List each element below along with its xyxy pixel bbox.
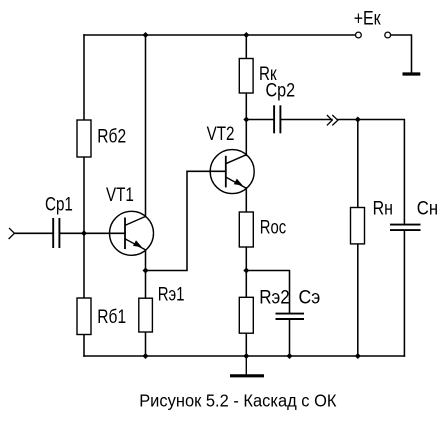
resistor Rk [239, 59, 253, 94]
wire Cn to bottom rail [403, 231, 405, 356]
wire Rk to node [245, 93, 247, 120]
capacitor Cp2 [274, 105, 280, 133]
capacitor Cn [390, 225, 421, 231]
svg-text:VT1: VT1 [106, 184, 134, 206]
svg-text:Rос: Rос [260, 217, 287, 238]
wire output arrow to Cn corner [338, 120, 404, 224]
wire VT2 emitter to Roc [245, 188, 247, 212]
svg-text:Ср1: Ср1 [45, 193, 73, 215]
resistor Re1 [139, 298, 153, 332]
wire top rail to Rk [245, 35, 247, 59]
wire VT2 collector vertical [245, 120, 247, 156]
wire left vertical middle [83, 157, 85, 298]
node Roc / Re2 / Ce [243, 268, 249, 274]
resistor Roc [239, 212, 253, 247]
input chevron [9, 228, 15, 239]
terminal +Ek right [385, 32, 391, 38]
terminal +Ek left [356, 32, 362, 38]
node bottom rail / Rn [355, 353, 361, 359]
wire Cp1 to VT1 base [60, 232, 125, 234]
wire node to Rn [357, 120, 359, 208]
wire VT1 collector vertical [145, 35, 147, 217]
capacitor Ce [276, 314, 305, 319]
resistor Rn [351, 208, 365, 244]
transistor VT2 [210, 150, 254, 194]
node top rail / VT1 collector [143, 32, 149, 38]
transistor VT1 [110, 211, 154, 255]
node bottom rail / Re2 / ground [243, 353, 249, 359]
svg-text:VT2: VT2 [207, 123, 235, 145]
wire Re2 to bottom rail [245, 333, 247, 356]
resistor Re2 [239, 297, 253, 333]
wire Roc to node [245, 247, 247, 271]
wire top rail [84, 34, 355, 36]
capacitor Cp1 [53, 218, 59, 248]
node Cp1 / divider [81, 230, 87, 236]
wire from +Ek terminal to chassis bar [391, 35, 412, 73]
svg-text:Рисунок 5.2 - Каскад с ОК: Рисунок 5.2 - Каскад с ОК [139, 390, 336, 411]
output arrow chevron 1 [327, 115, 332, 125]
wire node to Cp2 [246, 119, 273, 121]
ground [230, 356, 264, 376]
svg-text:Ср2: Ср2 [266, 79, 296, 101]
node output / Rn [355, 117, 361, 123]
svg-text:Rэ2: Rэ2 [259, 287, 290, 308]
svg-text:+Ек: +Ек [354, 7, 381, 29]
node bottom rail / Ce [287, 353, 293, 359]
resistor Rb2 [77, 120, 91, 157]
node VT1 emitter [143, 268, 149, 274]
wire left vertical upper [83, 35, 85, 120]
chassis bar top right [403, 72, 421, 75]
svg-text:Rэ1: Rэ1 [158, 284, 185, 305]
svg-text:Сн: Сн [417, 197, 438, 218]
node top rail / Rk [243, 32, 249, 38]
svg-text:Rн: Rн [373, 197, 393, 219]
output arrow chevron 2 [332, 115, 338, 125]
wire Ce to bottom rail [289, 320, 291, 356]
wire input to Cp1 [14, 232, 52, 234]
wire node to Re2 [245, 271, 247, 298]
node Rk / VT2 collector / Cp2 [243, 117, 249, 123]
wire Rn to bottom rail [357, 244, 359, 356]
wire VT1 emitter to Re1 [145, 250, 147, 298]
wire left vertical lower [83, 335, 85, 357]
wire bottom rail [84, 355, 404, 357]
wire Cp2 to output arrow [281, 119, 332, 121]
node bottom rail / Re1 [143, 353, 149, 359]
wire Re1 to bottom rail [145, 332, 147, 356]
wire node to Ce [246, 271, 289, 313]
svg-text:Rб2: Rб2 [97, 125, 126, 147]
wire VT1 emitter to VT2 base [146, 171, 226, 270]
svg-text:Rб1: Rб1 [97, 305, 126, 327]
resistor Rb1 [77, 298, 91, 335]
svg-text:Сэ: Сэ [299, 286, 321, 308]
